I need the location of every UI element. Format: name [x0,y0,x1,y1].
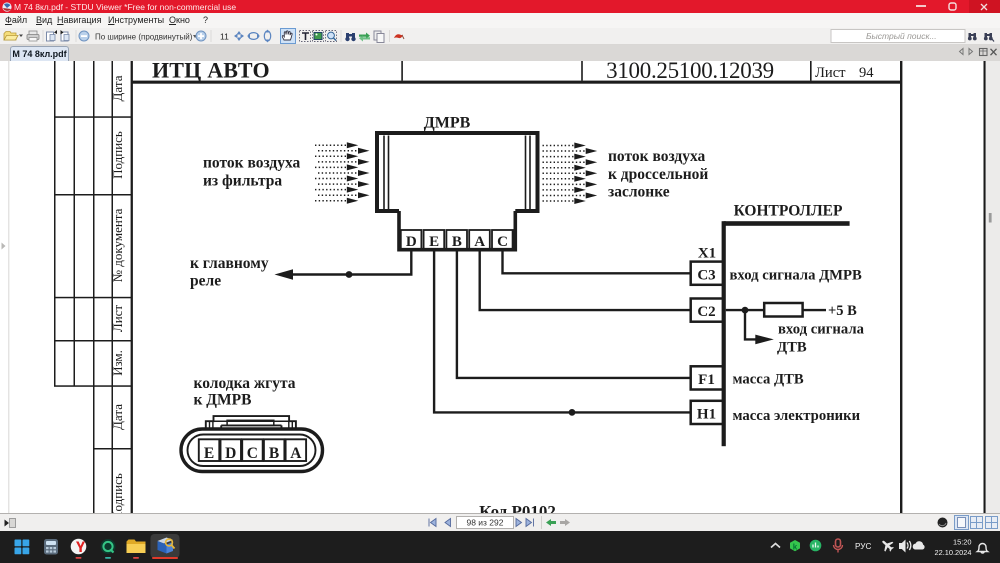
hand tool (selected) [281,29,296,44]
svg-text:ДМРВ: ДМРВ [424,115,471,132]
zoom region [326,31,337,42]
harness connector latch [206,416,296,430]
ДМРВ sensor body [377,133,538,211]
svg-text:Подпись: Подпись [110,131,125,179]
controller top bar [724,221,850,226]
junction on C2 wire [742,307,749,314]
collapsed panel arrow [2,243,6,250]
page left edge [8,61,9,513]
svg-text:масса ДТВ: масса ДТВ [733,371,804,387]
sidebar row lines [54,116,131,449]
svg-text:H1: H1 [697,407,716,423]
zoom in [196,31,206,41]
junction on relay wire [346,271,353,278]
harness pin A cell [286,439,307,461]
harness pin D cell [221,439,242,461]
pin F1 box [691,366,725,389]
svg-text:+5 В: +5 В [828,303,857,319]
label поток воздуха к дроссельной заслонке [608,148,708,201]
svg-text:k: k [793,543,798,552]
open folder button [4,32,23,41]
menu bar [0,13,1000,28]
outlet grille lines [526,136,531,210]
binoculars [345,33,355,41]
harness pin E cell [199,439,220,461]
svg-text:Дата: Дата [110,404,125,430]
svg-text:Подпись: Подпись [110,473,125,513]
taskbar [0,531,1000,563]
svg-text:D: D [225,445,236,462]
page icons [47,30,58,41]
pin D cell [401,230,422,249]
svg-text:Код Р0102: Код Р0102 [479,502,556,513]
quick search [831,30,965,43]
red flag [394,34,404,39]
svg-text:Быстрый поиск...: Быстрый поиск... [866,31,937,41]
sync arrows [359,33,370,42]
svg-text:вход сигнала ДМРВ: вход сигнала ДМРВ [730,267,863,283]
svg-text:реле: реле [190,273,221,290]
svg-text:РУС: РУС [855,542,871,551]
wire pin D to main relay [291,250,411,275]
svg-text:F1: F1 [698,372,715,388]
svg-text:E: E [429,234,439,250]
svg-text:11: 11 [220,32,229,42]
tab bar [0,45,1000,61]
harness pin letters E D C B A [204,445,302,462]
wire C2 to resistor [726,309,764,311]
sidebar column lines [54,61,113,513]
label колодка жгута к ДМРВ [194,375,296,409]
svg-text:ДТВ: ДТВ [777,340,807,356]
svg-text:заслонке: заслонке [608,184,670,201]
svg-text:По ширине (продвинутый): По ширине (продвинутый) [95,32,193,41]
pin B cell [446,230,467,249]
page right edge [984,61,986,513]
harness pin C cell [242,439,263,461]
title block divider 1 [401,61,403,81]
svg-text:Изм.: Изм. [110,350,125,376]
scrollbar gutter [986,61,1000,513]
svg-text:поток воздуха: поток воздуха [608,148,706,165]
harness pin B cell [264,439,285,461]
arrow to main relay [275,269,294,279]
svg-text:из фильтра: из фильтра [203,173,282,190]
inlet grille lines [384,136,389,210]
harness connector inner shell [188,435,316,467]
harness connector outer shell [181,429,323,472]
controller boundary line [722,221,726,446]
svg-text:22.10.2024: 22.10.2024 [935,548,972,557]
svg-text:Дата: Дата [110,75,125,101]
drawing frame inner left border [131,61,133,513]
sensor connector housing [399,211,515,250]
title block divider 2 [581,61,583,81]
svg-text:колодка жгута: колодка жгута [194,375,296,392]
status bar [0,513,1000,532]
fit icons [234,31,244,41]
svg-text:Лист: Лист [110,305,125,333]
svg-text:C2: C2 [697,304,715,320]
pin A cell [469,230,490,249]
pin H1 box [691,401,725,424]
svg-text:A: A [474,234,485,250]
ДТВ branch wire [745,310,757,339]
air flow arrows to throttle [543,146,586,202]
label к главному реле [190,255,269,290]
scrollbar thumb [989,213,992,223]
svg-text:масса электроники: масса электроники [733,408,861,424]
title block bottom rule [131,81,902,84]
wire pin A to C2 [480,250,691,310]
svg-text:к ДМРВ: к ДМРВ [194,392,252,409]
junction on H1 wire [569,409,576,416]
select image [313,31,324,42]
copy pages [374,31,384,43]
pin C2 box [691,299,725,322]
svg-text:A: A [290,445,302,462]
ДТВ branch arrow [755,335,774,345]
pin letters D E B A C [406,234,508,250]
wire resistor to +5 В [803,309,826,311]
air flow arrows from filter [315,145,357,201]
wire pin B to F1 [457,250,691,378]
pin E cell [424,230,445,249]
svg-text:B: B [269,445,279,462]
svg-text:Лист: Лист [815,65,846,81]
svg-text:ИТЦ АВТО: ИТЦ АВТО [152,61,270,83]
pin C cell [492,230,513,249]
svg-text:к дроссельной: к дроссельной [608,166,708,183]
svg-text:15:20: 15:20 [953,538,972,547]
pin C3 box [691,262,725,285]
svg-text:№ документа: № документа [110,208,125,282]
resistor (+5 В pull-up) [764,303,802,317]
wire pin C to C3 [503,250,691,274]
wire pin E to H1 [434,250,691,413]
svg-text:вход сигнала: вход сигнала [778,322,865,338]
svg-text:C3: C3 [697,267,715,283]
title block divider 3 [810,61,812,81]
svg-text:к главному: к главному [190,255,269,272]
svg-text:94: 94 [859,65,874,81]
svg-text:B: B [452,234,462,250]
printer button [27,31,39,41]
window title bar [0,0,1000,13]
svg-text:3100.25100.12039: 3100.25100.12039 [606,61,774,83]
svg-text:КОНТРОЛЛЕР: КОНТРОЛЛЕР [734,203,843,220]
svg-text:X1: X1 [698,245,716,261]
select text [300,31,311,42]
label поток воздуха из фильтра [203,155,301,190]
svg-text:E: E [204,445,214,462]
zoom out [79,31,89,41]
svg-text:C: C [247,445,258,462]
svg-text:D: D [406,234,417,250]
svg-text:поток воздуха: поток воздуха [203,155,301,172]
toolbar [0,28,1000,45]
drawing frame right border [900,61,902,513]
svg-text:C: C [497,234,508,250]
svg-text:98 из 292: 98 из 292 [466,518,503,528]
